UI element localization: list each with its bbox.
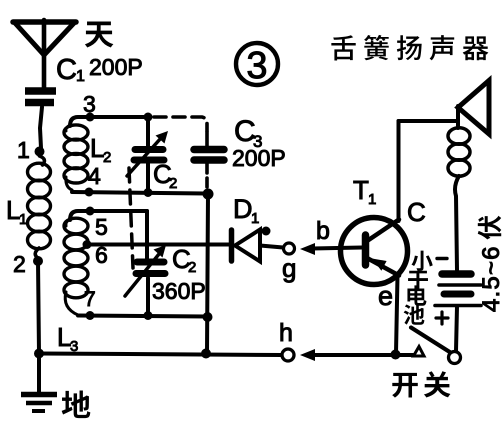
wire node h to emitter junction bbox=[312, 353, 395, 357]
arrow into node g bbox=[300, 243, 315, 255]
wire D1 to node g bbox=[260, 246, 283, 248]
junction bus-row7 bbox=[203, 312, 213, 322]
svg-text:T: T bbox=[353, 175, 369, 205]
wire C2b bottom lead bbox=[146, 278, 150, 315]
svg-text:2: 2 bbox=[103, 149, 111, 166]
capacitor C1 bbox=[25, 91, 56, 103]
label 小干电池 bbox=[411, 251, 432, 271]
switch lever bbox=[411, 328, 451, 353]
wire top to speaker bbox=[399, 119, 459, 123]
svg-text:3: 3 bbox=[246, 45, 267, 87]
junction row3-C2a bbox=[144, 113, 153, 122]
arrow into node h bbox=[300, 349, 315, 361]
ground rail wire bbox=[39, 354, 282, 356]
speaker horn bbox=[458, 81, 489, 135]
switch hinge terminal bbox=[449, 352, 461, 364]
ground rail junction bbox=[34, 349, 44, 359]
junction C2a-bottom row4 bbox=[144, 188, 153, 197]
svg-text:g: g bbox=[282, 253, 296, 283]
junction bus-ground rail bbox=[201, 349, 211, 359]
dashed wire to C3 top bbox=[154, 117, 207, 131]
wire row 6 bbox=[85, 243, 229, 247]
diode D1 bbox=[232, 230, 261, 262]
label 开关 bbox=[392, 373, 418, 398]
wire C3 top stub bbox=[205, 132, 209, 146]
wire row5 to C2b bbox=[145, 211, 149, 259]
label 舌簧扬声器 bbox=[331, 35, 355, 60]
antenna bbox=[13, 20, 76, 88]
battery plus sign bbox=[436, 312, 448, 324]
svg-text:6: 6 bbox=[95, 242, 108, 268]
battery B1 bbox=[435, 274, 481, 306]
switch contact bbox=[414, 347, 425, 357]
svg-text:200P: 200P bbox=[232, 145, 286, 171]
label 地 bbox=[62, 391, 91, 419]
wire speaker to battery bbox=[455, 176, 459, 270]
dashed wire C3 to row4 bbox=[205, 178, 209, 190]
wire emitter down bbox=[396, 276, 398, 354]
svg-text:2: 2 bbox=[169, 175, 177, 192]
svg-text:360P: 360P bbox=[152, 278, 206, 304]
wire right bus x208 bbox=[207, 194, 208, 353]
junction C2b-row7 bbox=[144, 311, 153, 320]
svg-text:200P: 200P bbox=[89, 54, 143, 80]
node h terminal bbox=[282, 349, 294, 361]
node 2 junction bbox=[33, 256, 43, 266]
junction C3-row4 bbox=[203, 189, 214, 200]
wire row 7 bbox=[78, 316, 207, 317]
svg-text:C: C bbox=[407, 197, 426, 227]
svg-text:1: 1 bbox=[17, 137, 30, 163]
node 1 junction bbox=[35, 147, 45, 157]
label 天 bbox=[85, 22, 114, 48]
pin 4 junction bbox=[85, 188, 94, 197]
wire row 5 bbox=[70, 211, 147, 220]
pin 3 junction bbox=[86, 113, 95, 122]
label 4.5~6伏 bbox=[478, 216, 503, 312]
wire ground stem bbox=[37, 353, 41, 392]
ground symbol bbox=[21, 395, 57, 412]
wire row 4 bbox=[72, 192, 206, 194]
svg-text:4.5~6: 4.5~6 bbox=[478, 245, 503, 312]
wire battery to switch bbox=[456, 307, 457, 352]
svg-text:C: C bbox=[56, 54, 77, 86]
pin 5 junction bbox=[86, 207, 95, 216]
node g terminal bbox=[284, 243, 295, 254]
svg-text:D: D bbox=[233, 194, 253, 224]
svg-text:5: 5 bbox=[95, 214, 108, 240]
capacitor C2b plates bbox=[136, 262, 165, 274]
pin 6 junction bbox=[83, 240, 92, 249]
wire collector up bbox=[397, 121, 401, 221]
capacitor C3 plates bbox=[194, 150, 224, 161]
inductor L2 bbox=[64, 125, 88, 190]
svg-text:e: e bbox=[378, 281, 393, 311]
transistor T1 collector stroke bbox=[367, 220, 399, 242]
svg-text:4: 4 bbox=[88, 163, 101, 189]
transistor T1 emitter stroke bbox=[367, 258, 399, 276]
wire C3 bottom stub bbox=[205, 163, 209, 173]
inductor L3 bbox=[64, 218, 88, 315]
pin 7 junction bbox=[86, 311, 95, 320]
battery minus sign bbox=[437, 257, 447, 260]
figure number circle 3 bbox=[236, 43, 278, 87]
svg-text:1: 1 bbox=[19, 211, 27, 228]
C2b arrow bbox=[125, 245, 166, 296]
transistor T1 emitter arrow bbox=[372, 259, 387, 271]
svg-text:3: 3 bbox=[83, 91, 96, 117]
transistor T1 body bbox=[341, 218, 408, 285]
wire C1 to node 1 bbox=[40, 107, 42, 148]
svg-text:1: 1 bbox=[251, 210, 259, 227]
speaker coil bbox=[448, 128, 470, 176]
wire node2 to ground rail bbox=[38, 261, 39, 353]
junction emitter-ground rail bbox=[391, 350, 401, 360]
wire C2a bottom lead bbox=[146, 163, 150, 192]
capacitor C2a plates bbox=[134, 150, 164, 161]
C2a arrow bbox=[127, 131, 168, 176]
dashed gang link C2a-C2b bbox=[129, 168, 133, 268]
wire row 3 (L2 top) bbox=[70, 117, 148, 126]
svg-text:2: 2 bbox=[188, 259, 196, 276]
svg-text:h: h bbox=[279, 319, 293, 347]
D1 polarity dot bbox=[262, 227, 271, 236]
svg-text:1: 1 bbox=[76, 68, 85, 85]
transistor T1 base bar bbox=[362, 235, 370, 265]
svg-text:1: 1 bbox=[368, 191, 376, 208]
wire emitter junction to switch bbox=[395, 353, 414, 357]
svg-text:2: 2 bbox=[13, 251, 26, 277]
svg-text:b: b bbox=[316, 217, 330, 245]
inductor L1 bbox=[28, 156, 51, 258]
wire base to arrow bbox=[312, 248, 362, 249]
svg-text:7: 7 bbox=[84, 288, 96, 311]
wire C2a top lead bbox=[146, 117, 150, 146]
